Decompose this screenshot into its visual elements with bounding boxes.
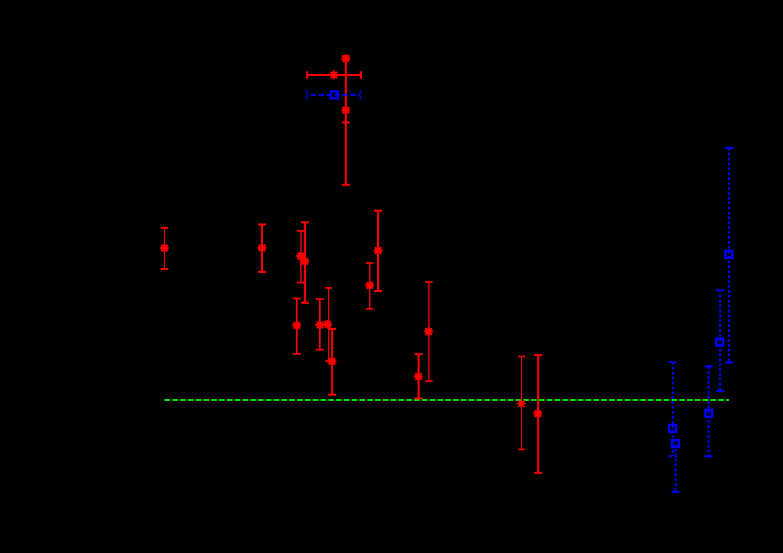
red asterisk point (297,325) <box>292 321 301 330</box>
red asterisk point (262,248) <box>258 244 267 253</box>
red error bar x=329 (thin) <box>325 288 332 361</box>
red asterisk point (346,110) <box>341 106 350 115</box>
red asterisk point (370,285) <box>365 281 374 290</box>
red asterisk point (164,248) <box>160 244 169 253</box>
red error bar x=538 <box>534 355 542 473</box>
red error bar x=370 (thin) <box>366 263 374 309</box>
red asterisk point (332,361) <box>328 357 337 366</box>
red asterisk point (334,75) <box>329 71 338 80</box>
red horizontal error bar, top cluster <box>307 71 361 78</box>
blue dashed error bar x=720 <box>716 290 724 391</box>
red error bar, top cluster vertical <box>342 56 350 185</box>
blue square point (709,413) <box>705 410 712 417</box>
blue error bar x=720 top cap (dashed) <box>716 289 724 291</box>
blue dashed error bar x=676 <box>672 444 680 492</box>
red error bar x=297 <box>293 299 301 354</box>
green dashed reference line y=0 <box>165 399 730 401</box>
red asterisk point (378,250) <box>374 246 383 255</box>
red asterisk point (320,325) <box>315 321 324 330</box>
blue square point (676,444) <box>672 440 679 447</box>
red error bar x=429 (thin) <box>425 282 433 381</box>
blue square point (673,428) <box>669 425 676 432</box>
blue dashed error bar x=709 <box>705 366 713 456</box>
blue square point (729,254) <box>725 251 732 258</box>
red asterisk point (301,256) <box>296 252 305 261</box>
red asterisk point (346,59) <box>341 54 350 63</box>
red asterisk point (328,324) <box>323 320 332 329</box>
blue dashed error bar x=673 <box>669 362 677 456</box>
red error bar x=164 (thin) <box>161 228 168 269</box>
red error bar x=320 <box>316 299 324 350</box>
red error bar x=419 <box>415 354 423 398</box>
blue square point (720,342) <box>716 339 723 346</box>
red error bar x=332 <box>328 329 336 395</box>
red error bar x=522 (thin) <box>518 356 525 449</box>
blue dashed horizontal error bar, top cluster <box>307 91 361 99</box>
red asterisk point (305,261) <box>300 257 309 266</box>
red asterisk point (521,404) <box>517 399 526 408</box>
red asterisk point (418,377) <box>414 372 423 381</box>
red error bar x=262 <box>258 224 266 272</box>
blue square point (334,95) <box>331 91 338 98</box>
red error bar x=301 (thin) <box>297 231 305 283</box>
red asterisk point (538,414) <box>533 409 542 418</box>
blue dashed error bar x=729 <box>725 148 733 363</box>
red error bar x=305 <box>301 222 309 302</box>
red error bar x=378 <box>374 211 382 291</box>
red asterisk point (429,332) <box>424 327 433 336</box>
